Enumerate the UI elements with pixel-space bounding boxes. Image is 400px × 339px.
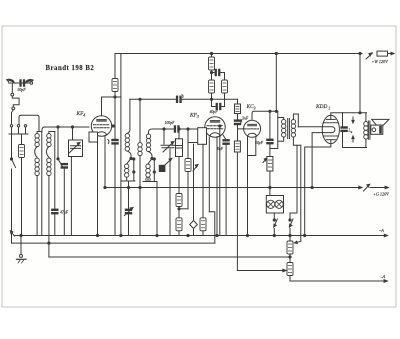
arrow +G mid — [359, 186, 362, 189]
wire osc line 98 right — [181, 98, 237, 100]
wire R-A1 to node — [289, 254, 291, 263]
tube KDD1 grid dash top — [324, 122, 338, 124]
node oscB contact — [151, 157, 153, 159]
indicator diamond — [190, 221, 198, 229]
wire KF3 grid line left corner — [149, 129, 153, 134]
variable capacitor C-pad2 arrow — [163, 142, 174, 153]
variable capacitor C-trim2 plates — [176, 146, 182, 149]
resistor R-A2 — [287, 263, 293, 276]
wire R3 to bus — [202, 231, 204, 236]
svg-text:3nF: 3nF — [242, 117, 249, 121]
wire KF3 grid line — [152, 128, 174, 130]
coil L-ant1 lower — [35, 158, 39, 176]
wire trimmer col 128 — [128, 188, 130, 210]
tick near cap — [182, 95, 183, 98]
tube KF4 grid box — [89, 132, 98, 142]
wire KDD1 top lead — [331, 113, 343, 120]
wire B+ junction drop — [359, 54, 361, 113]
terminal switch contact 2 — [17, 125, 19, 127]
tube KF3 anode — [210, 121, 219, 122]
output core — [368, 121, 370, 139]
wire left column to switch — [11, 134, 13, 159]
wire contact col A — [133, 159, 135, 172]
svg-text:4: 4 — [83, 113, 85, 118]
wire antenna drop — [11, 83, 13, 93]
wire avc3 top — [224, 73, 226, 81]
ground bar — [17, 258, 27, 260]
speaker box left — [342, 113, 344, 127]
coil L-ant2 top link — [49, 132, 55, 134]
wire KC3 B+ col — [237, 99, 239, 104]
wire L-oscA jog — [127, 151, 131, 158]
speaker voice coil — [372, 128, 376, 132]
tube KC3 anode — [248, 124, 257, 125]
node grid tap 72 — [71, 126, 73, 128]
wire KC3 cathode col — [247, 137, 249, 236]
coil L-oscB lower — [146, 164, 150, 182]
wire column 54 upper — [54, 132, 56, 210]
switch contact armB — [289, 219, 293, 227]
ground terminal — [20, 254, 23, 257]
svg-text:50pF: 50pF — [18, 88, 27, 92]
wire L-ant1 to bus — [36, 176, 38, 236]
resistor R-avc2 — [209, 80, 215, 93]
tube KF4 grids — [94, 124, 110, 126]
node osc mid top — [139, 98, 141, 100]
wire +G line — [105, 187, 361, 189]
tube KDD1 grid dash bottom — [324, 135, 338, 137]
wire osc line 98 left — [130, 98, 177, 100]
wire hairpin return lower — [312, 133, 322, 188]
tube KF3 cathode — [210, 133, 220, 136]
wire KF3 stem col2 — [216, 137, 218, 236]
svg-text:–A: –A — [380, 274, 386, 279]
wire bus1 — [14, 235, 387, 237]
resistor R-ch1 — [176, 194, 182, 207]
capacitor C-avc2 — [216, 103, 221, 109]
node G-139 — [139, 186, 141, 188]
wire KF4 anode line — [102, 96, 121, 98]
wire KC3 anode lead — [252, 111, 278, 119]
wire KF3 grid line right — [180, 128, 205, 130]
wire KC3 screen cap diag — [223, 135, 226, 140]
capacitor C-kf3k — [223, 140, 229, 145]
wire L-ant1 jog — [35, 147, 37, 158]
svg-text:1: 1 — [328, 106, 330, 111]
wire cap col to bus — [225, 144, 227, 235]
tube KDD1 anode bottom — [326, 139, 335, 141]
wire KC3 lead 2 — [248, 137, 256, 156]
svg-text:Brandt 198 B2: Brandt 198 B2 — [46, 65, 95, 72]
tube KDD1 hairpin — [323, 127, 335, 133]
node anode-R junction — [114, 96, 116, 98]
wire top B+ bus — [115, 53, 362, 55]
speaker driver box — [371, 125, 383, 134]
antenna left hook — [7, 79, 15, 83]
coil L-ant1 top link — [37, 132, 42, 134]
wire sec bottom col2 — [300, 145, 302, 241]
coil L-out — [364, 122, 368, 140]
terminal jack 2 — [12, 107, 15, 110]
tube KC3 grid — [245, 128, 260, 130]
wire IFT primary bottom col — [270, 145, 278, 149]
variable capacitor C-tune1 arrow — [69, 143, 80, 154]
coil L-ant2 upper — [47, 134, 51, 147]
wire contact colB to bus — [289, 229, 291, 242]
node oscA-G junction — [127, 186, 129, 188]
wire osc coil A feed — [127, 99, 130, 133]
wire +G line right — [370, 187, 387, 189]
wire resistor R-left feed — [21, 135, 23, 145]
node chain mid — [178, 208, 180, 210]
tube KF3 grids — [207, 125, 223, 127]
resistor R-lamp — [267, 157, 273, 172]
switch oscB arm2 — [165, 159, 172, 166]
capacitor C-pad1 — [125, 209, 131, 214]
wire bus2 — [12, 242, 215, 244]
variable capacitor C-pad2 plates — [161, 145, 175, 148]
wire bus3 drop — [48, 236, 50, 258]
wire left column upper — [12, 110, 14, 125]
wire R3 col upper — [202, 144, 204, 218]
resistor R-a1 — [112, 79, 118, 92]
wire column 64 lower — [63, 168, 65, 235]
wire grid col lower — [187, 172, 189, 209]
wire KF4 anode lead — [101, 97, 103, 116]
wire contact colB top — [289, 213, 291, 220]
capacitor C-osc series — [176, 96, 181, 102]
resistor R-k3 — [200, 218, 206, 231]
resistor R-avc top — [211, 54, 213, 58]
wire varcap feed — [72, 127, 74, 140]
node trimmer2 tap — [178, 128, 180, 130]
resistor R-kc2 — [234, 141, 240, 152]
svg-text:8nF: 8nF — [217, 147, 224, 151]
wire left column lower — [11, 169, 13, 243]
wire lamp col lower — [269, 171, 271, 196]
coil IFT-pri — [282, 120, 286, 138]
wire fuse lead arrow — [388, 52, 395, 54]
wire KF3 g2 col — [219, 126, 221, 236]
node avc line cross — [210, 98, 212, 100]
speaker box bottom — [343, 147, 367, 149]
arrow -A — [384, 280, 387, 283]
resistor R-A1 — [287, 241, 293, 254]
resistor R-kc — [235, 104, 241, 114]
speaker box left lower — [342, 132, 344, 148]
svg-text:+W 120V: +W 120V — [372, 59, 389, 64]
switch S1 arm — [12, 159, 16, 168]
node KC3 B+ — [275, 110, 277, 112]
IFT secondary bottom link — [293, 137, 300, 145]
node hairpin G junction — [311, 186, 313, 188]
wire varcap to bus — [70, 157, 72, 236]
wire bus2 right jog — [209, 212, 215, 243]
wire KF3 stem jog col — [208, 137, 210, 212]
switch bus1 arm — [10, 231, 14, 236]
wire sec top col — [297, 114, 299, 127]
arrow feedback — [283, 269, 286, 272]
antenna right hook — [26, 79, 34, 83]
tube KC3 envelope — [244, 120, 261, 137]
terminal antenna jack — [11, 93, 14, 96]
fuse Si — [377, 51, 388, 56]
node bus1 junctions — [96, 234, 98, 236]
wire lamp box mid — [266, 203, 283, 205]
switch oscA arm — [127, 159, 131, 164]
speaker cone — [372, 119, 389, 125]
wire avc node1 — [211, 70, 213, 80]
wire KF3 gridbox link — [188, 142, 198, 144]
capacitor C-lamp — [267, 139, 273, 144]
tube KF4 envelope — [91, 116, 111, 136]
wire feedback line 270 — [237, 270, 284, 272]
switch contact armA — [274, 219, 278, 227]
svg-text:3: 3 — [197, 114, 199, 119]
node lamp G cross — [269, 186, 271, 188]
wire grid line KF4 — [45, 126, 90, 128]
node G-269 cross dot — [104, 186, 106, 188]
wire trimmer col lower — [128, 214, 130, 236]
switch arm near R-A1 — [295, 241, 301, 243]
lamp La1 — [267, 200, 275, 208]
svg-text:~A: ~A — [379, 228, 384, 233]
wire chain mid link — [178, 207, 180, 218]
svg-text:+G 120V: +G 120V — [373, 192, 389, 197]
terminal antenna right — [30, 82, 33, 85]
tick near 3nF — [241, 120, 242, 123]
node bus3 tap — [48, 242, 50, 244]
speaker box top — [343, 112, 367, 114]
wire column 114 lower — [114, 144, 116, 235]
wire osc mid col lower — [139, 156, 141, 236]
tube KF3 envelope — [205, 117, 225, 137]
IFT core — [288, 119, 290, 139]
antenna horizontal lead — [9, 82, 30, 84]
terminal switch contact 1 — [10, 125, 12, 127]
wire diamond feed — [193, 144, 195, 220]
coil L-oscA upper — [125, 134, 129, 152]
speaker box right bottom — [365, 139, 367, 147]
wire lamp col upper — [269, 111, 271, 139]
wire diamond to bus — [193, 229, 195, 236]
wire contact 57 drop — [57, 127, 59, 158]
resistor R-left — [19, 145, 25, 158]
switch +G arm — [364, 184, 370, 191]
wire KF4 grid col — [93, 142, 97, 236]
IFT primary top link — [278, 118, 284, 120]
resistor R-avc3 — [222, 80, 228, 93]
node box top — [359, 112, 361, 114]
wire padder to bus — [169, 149, 171, 236]
svg-text:3: 3 — [254, 106, 256, 111]
coil L-oscB upper — [146, 134, 150, 152]
speaker link — [369, 128, 372, 130]
variable capacitor C-tune1 frame — [69, 140, 83, 157]
coil L-ant1 upper — [35, 134, 39, 147]
wire KF3 cathode jog — [179, 208, 188, 210]
wire avc3 bottom — [224, 93, 226, 107]
wire avc cap1 links — [212, 72, 225, 74]
node oscA contact — [130, 157, 132, 159]
wire trimmer2 feed — [178, 129, 180, 139]
wire B+ col 275 — [275, 54, 277, 112]
speaker magnet bar — [379, 126, 382, 134]
wire padder feed — [163, 129, 165, 144]
IFT secondary top link — [293, 114, 298, 120]
wire contact col B — [153, 159, 155, 172]
capacitor C-ant — [20, 80, 25, 86]
tick apostrophe KF4 — [108, 140, 109, 144]
tube KDD1 envelope — [322, 115, 339, 143]
wire column 114 mid — [114, 97, 116, 140]
wire sec bottom col — [290, 145, 297, 213]
tube KDD1 anode top — [326, 118, 335, 120]
switch arm g3 — [193, 165, 198, 172]
arrow field lower — [352, 136, 354, 142]
svg-text:50pF: 50pF — [255, 141, 264, 145]
node grid col top — [187, 128, 189, 130]
ground ticks — [18, 260, 24, 263]
wire chain to bus — [178, 231, 180, 236]
resistor R-g3 — [185, 159, 191, 172]
wire resistor R-left to bus — [21, 158, 23, 236]
arrow +G end — [385, 186, 388, 189]
IFT primary left side — [277, 111, 279, 145]
switch S-mains arm — [366, 53, 373, 59]
capacitor C-pad1 arrow — [125, 208, 134, 216]
speaker box right top — [365, 113, 367, 122]
wire L-ant2 jog — [47, 147, 49, 158]
wire R-a1 bottom — [114, 92, 116, 98]
coil L-oscA lower — [125, 164, 129, 177]
wire contact colA below lamps — [273, 213, 275, 220]
wire L-ant2 to bus — [48, 176, 50, 236]
wire KF4 g2 tap — [112, 125, 115, 127]
wire ground stub — [20, 236, 22, 255]
node bus3 join — [289, 256, 291, 258]
capacitor C-kc3 grid — [234, 120, 240, 125]
wire grid link KC3 — [238, 125, 244, 141]
wire L-oscA bottom — [121, 172, 135, 188]
lamp La2 — [275, 200, 283, 208]
node B+ junction — [359, 52, 361, 54]
tube KF3 grid box — [198, 128, 207, 145]
wire B+ branch right long — [120, 54, 122, 236]
switch S2 arm — [57, 158, 59, 160]
wire osc mid col upper — [139, 99, 141, 142]
wire R-A2 elbow — [290, 276, 386, 282]
arrow field upper — [352, 117, 354, 123]
wire ant return column — [41, 132, 43, 236]
tube KC3 cathode — [248, 133, 257, 136]
wire grid feed corner — [42, 127, 45, 132]
coil L-oscM — [138, 143, 142, 156]
svg-text:100pF: 100pF — [165, 121, 176, 125]
wire column 54 lower — [54, 214, 56, 236]
wire hairpin feed upper — [298, 126, 322, 128]
switch arm lamp — [263, 158, 267, 162]
svg-text:KDD: KDD — [315, 104, 327, 110]
node bus1 ground tap — [20, 234, 22, 236]
resistor R-ch2 — [176, 218, 182, 231]
wire KDD1 bottom lead — [305, 140, 331, 236]
wire contact bar — [9, 127, 28, 134]
wire KF4 stem col — [104, 136, 106, 188]
capacitor C-avc1 — [215, 69, 220, 75]
terminal switch contact 3 — [24, 125, 26, 127]
variable capacitor C-tune1 plates — [71, 146, 81, 149]
capacitor C-57 — [61, 163, 67, 168]
wire lamp col mid — [269, 144, 271, 157]
wire band feeder rounded — [19, 115, 39, 131]
wire col 237 long — [236, 152, 238, 271]
coil IFT-sec — [291, 120, 295, 138]
IFT primary bottom link — [278, 137, 284, 141]
wire grid col KF3 — [187, 129, 189, 159]
arrow bus1 — [384, 234, 387, 237]
node avc1 — [210, 71, 212, 73]
wire avc2 bottom — [211, 93, 213, 107]
wire antenna S-link — [12, 96, 19, 107]
wire bus3 — [49, 256, 290, 258]
wire avc cap2 links — [212, 106, 225, 108]
capacitor C-47uF — [52, 209, 58, 214]
capacitor C-out — [341, 127, 347, 132]
wire R-kc bottom — [237, 114, 239, 120]
variable capacitor C-trim2 frame — [176, 139, 183, 157]
wire L-oscB bottom — [143, 172, 157, 236]
wire B+ branch left — [114, 54, 116, 79]
tube KF4 cathode — [96, 132, 106, 135]
node padder tap — [163, 128, 165, 130]
coil L-ant2 lower — [47, 158, 51, 176]
wire trimmer2 lower col — [178, 157, 180, 194]
resistor R-oscB — [159, 165, 166, 172]
capacitor C-114 — [112, 139, 118, 144]
lamp box — [266, 196, 283, 214]
switch oscB arm — [148, 159, 152, 164]
capacitor C-100pF — [174, 126, 179, 132]
wire contact colA to bus — [273, 229, 275, 236]
node lamp feed — [269, 110, 271, 112]
svg-text:40pF: 40pF — [210, 110, 219, 114]
wire L-oscB jog — [149, 152, 153, 158]
node grid tap 57 — [57, 126, 59, 128]
tube KF4 anode — [97, 120, 106, 121]
